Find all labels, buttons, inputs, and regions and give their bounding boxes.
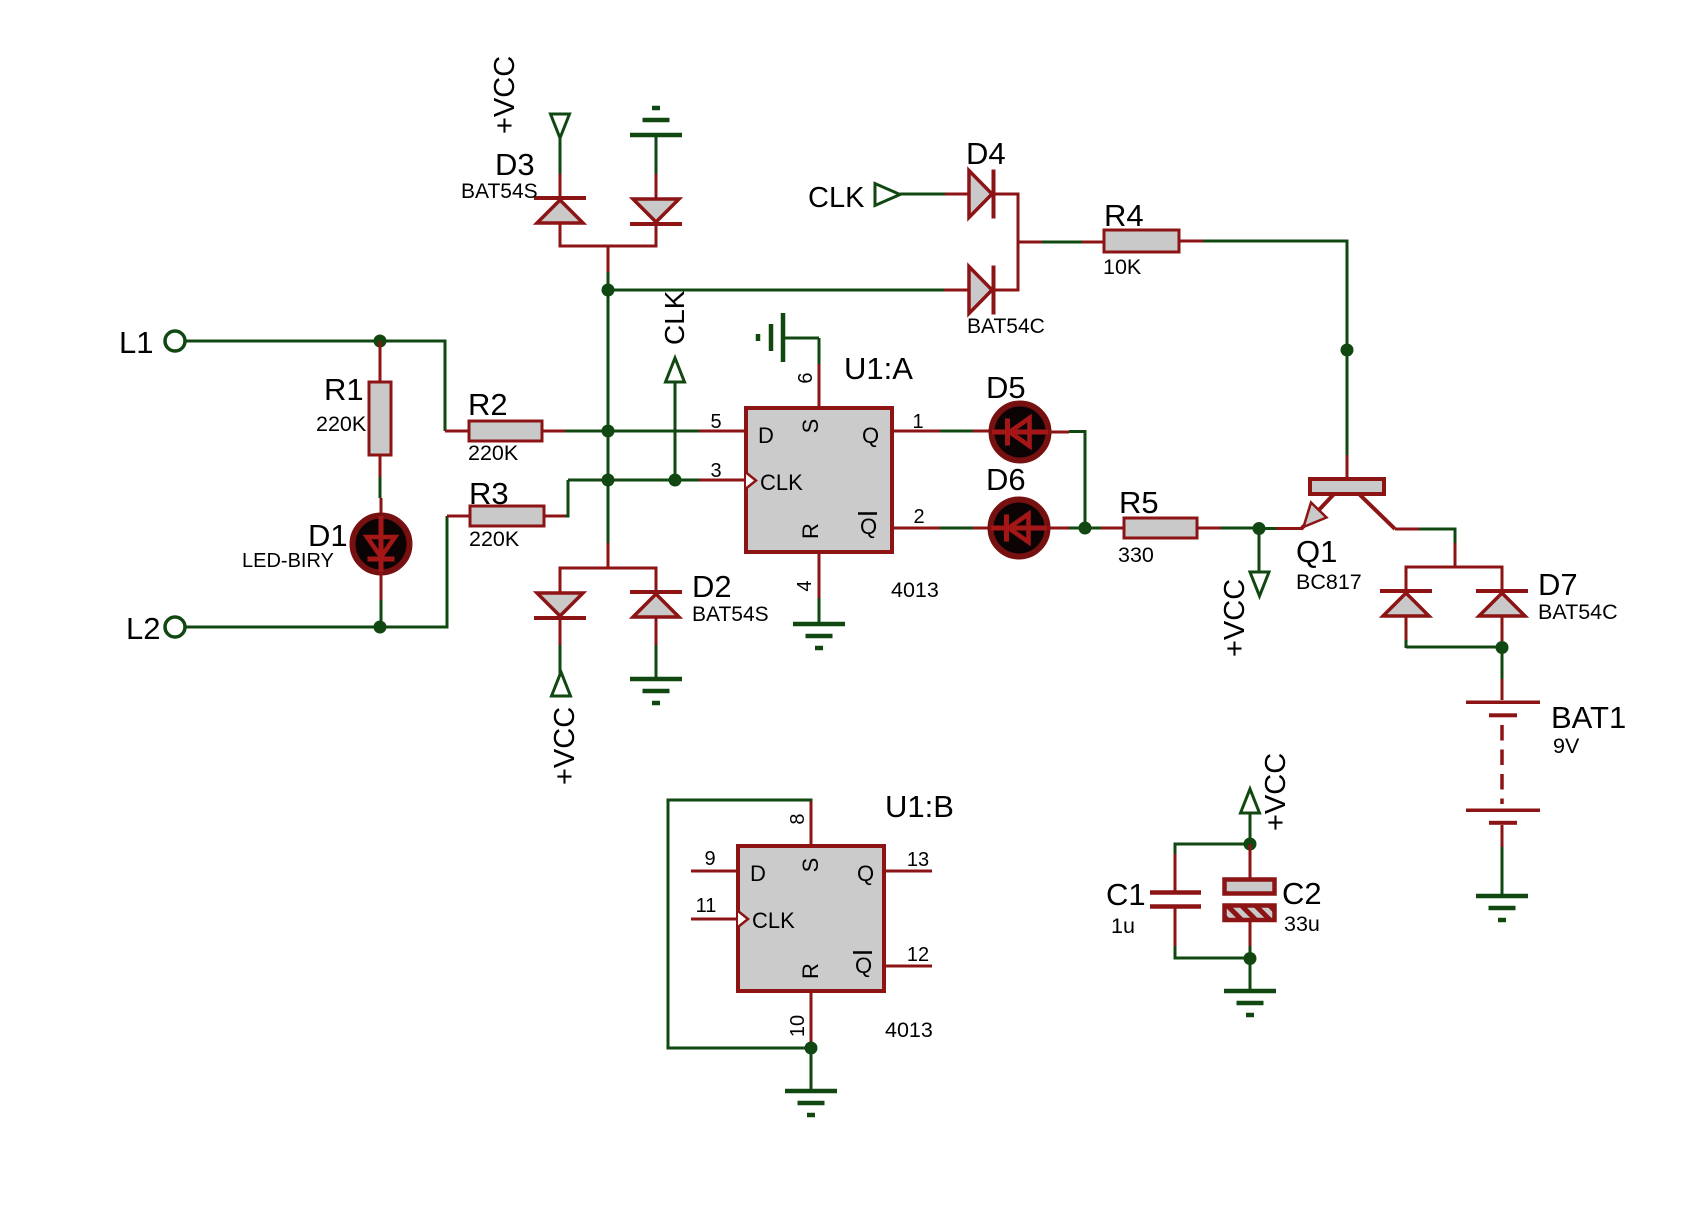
svg-text:D5: D5 [986, 370, 1026, 405]
LED D5 [992, 404, 1049, 461]
wire D7 right anode down [1501, 616, 1504, 641]
wire bus D3 to CLK crossing [607, 272, 610, 543]
svg-text:R2: R2 [468, 387, 508, 422]
value R2 220K [468, 441, 519, 465]
wire pin 10 to ground [810, 1048, 813, 1090]
diode D2 right half [630, 592, 682, 617]
wire D7 left anode down [1405, 616, 1408, 648]
Q1 collector [1359, 494, 1419, 529]
value C1 1u [1111, 914, 1135, 938]
svg-text:220K: 220K [316, 412, 367, 436]
svg-text:+VCC: +VCC [1260, 753, 1292, 831]
wire D1 top pin [380, 498, 383, 516]
svg-text:CLK: CLK [659, 290, 690, 345]
U1:A pin 3 stub [699, 479, 746, 482]
U1:B text R [798, 963, 823, 979]
U1:A pin 5 stub [699, 430, 746, 433]
ground below D2 [630, 679, 682, 703]
wire top rail to C1 [1175, 843, 1250, 855]
svg-text:9V: 9V [1553, 734, 1580, 758]
wire R2 to U1:A pin 5 (net D) [565, 430, 699, 433]
U1:B clock wedge [738, 911, 748, 927]
value D3 BAT54S [461, 180, 538, 203]
U1:A pin 3 number [710, 460, 721, 482]
label D6 [986, 462, 1026, 497]
terminal L2 [165, 617, 185, 637]
wire R3 left pin [447, 515, 471, 518]
svg-text:10K: 10K [1103, 255, 1142, 279]
svg-text:D3: D3 [495, 147, 535, 182]
svg-text:D6: D6 [986, 462, 1026, 497]
label Q1 [1296, 534, 1337, 569]
svg-text:R4: R4 [1104, 198, 1144, 233]
value BAT1 9V [1553, 734, 1580, 758]
label D5 [986, 370, 1026, 405]
power flag CLK (vertical) [666, 358, 685, 480]
wire D3 left cathode pin [559, 174, 562, 198]
wire L1 to junction [186, 340, 378, 343]
svg-text:330: 330 [1118, 543, 1154, 567]
wire R5 right pin [1197, 527, 1221, 530]
svg-text:+VCC: +VCC [1219, 579, 1251, 657]
wire D3 output bus [559, 245, 658, 248]
value R1 220K [316, 412, 367, 436]
U1:B pin 8 number [787, 813, 809, 824]
svg-text:CLK: CLK [760, 470, 803, 495]
wire emitter node right [1259, 527, 1302, 530]
wire R2 right pin [542, 430, 565, 433]
svg-text:C1: C1 [1106, 877, 1146, 912]
svg-text:D7: D7 [1538, 567, 1578, 602]
svg-text:D4: D4 [966, 136, 1006, 171]
LED D1 [353, 516, 410, 573]
svg-text:CLK: CLK [808, 182, 865, 214]
svg-text:R3: R3 [469, 476, 509, 511]
svg-text:4013: 4013 [891, 578, 939, 602]
svg-text:Q1: Q1 [1296, 534, 1337, 569]
wire D7 left cathode stub [1405, 567, 1408, 591]
node base net junction [1341, 344, 1354, 357]
U1:B pin 13 number [907, 849, 929, 871]
U1:B text Qbar [853, 953, 872, 979]
wire D2 right to ground [655, 617, 658, 678]
svg-text:3: 3 [710, 460, 721, 482]
svg-text:R5: R5 [1119, 485, 1159, 520]
wire L1 junction to R2 corner [380, 340, 445, 432]
wire R5 to emitter node [1221, 527, 1259, 530]
U1:B pin 9 stub [691, 870, 738, 873]
label R3 [469, 476, 509, 511]
U1:A pin 1 number [912, 411, 923, 433]
U1:B text S [798, 858, 823, 873]
U1:B text D [750, 861, 766, 886]
U1:A clock wedge [746, 473, 756, 489]
wire L2 to junction [186, 626, 378, 629]
svg-text:Q: Q [860, 514, 877, 539]
wire D2 left to +VCC [559, 618, 562, 674]
label R1 [324, 372, 364, 407]
U1:A pin 6 stub [818, 364, 821, 408]
wire C1 top pin [1174, 854, 1177, 891]
label D7 [1538, 567, 1578, 602]
diode D7 left half [1380, 591, 1432, 616]
ground below U1:B [785, 1091, 837, 1115]
U1:A pin 6 number [795, 372, 817, 383]
wire collector to D7 [1419, 528, 1455, 569]
label R2 [468, 387, 508, 422]
diode D3 left half [534, 198, 586, 223]
svg-text:L1: L1 [119, 325, 153, 360]
svg-text:R: R [798, 963, 823, 979]
svg-text:12: 12 [907, 944, 929, 966]
label C2 [1282, 876, 1322, 911]
svg-text:D1: D1 [308, 518, 348, 553]
value D7 BAT54C [1538, 600, 1618, 624]
wire D3 right anode pin [655, 174, 658, 199]
power +VCC above D3 [551, 114, 570, 138]
wire R2 left pin [445, 430, 470, 433]
diode D3 right half [630, 199, 682, 224]
label C1 [1106, 877, 1146, 912]
value Q1 BC817 [1296, 570, 1362, 594]
resistor R5 [1124, 518, 1197, 538]
wire D4 to R4 [1018, 241, 1105, 244]
label U1:B [885, 789, 954, 824]
svg-text:CLK: CLK [752, 908, 795, 933]
wire pin1 to D5 [940, 430, 991, 433]
svg-text:+VCC: +VCC [549, 707, 581, 785]
label U1:A [844, 351, 913, 386]
svg-text:BAT54C: BAT54C [1538, 600, 1618, 624]
U1:A pin 4 stub [818, 552, 821, 598]
svg-text:11: 11 [696, 895, 717, 917]
diode D4 bottom half [969, 266, 994, 315]
U1:B pin 10 number [787, 1015, 809, 1037]
svg-text:Q: Q [857, 861, 874, 886]
battery BAT1 dashed link [1500, 725, 1504, 804]
node D7 junction [1496, 641, 1509, 654]
node D5/D6 junction [1079, 522, 1092, 535]
svg-text:D: D [750, 861, 766, 886]
label D1 [308, 518, 348, 553]
transistor Q1 base bar [1310, 479, 1384, 494]
value U1:B 4013 [885, 1018, 933, 1042]
label +VCC below D2 [549, 707, 581, 785]
wire +VCC to C2 node [1249, 812, 1252, 844]
U1:A text D [758, 423, 774, 448]
node CLK net junction 1 [602, 474, 615, 487]
power +VCC at emitter [1250, 529, 1269, 597]
value C2 33u [1284, 912, 1320, 936]
label R4 [1104, 198, 1144, 233]
U1:B pin 12 number [907, 944, 929, 966]
U1:A pin 1 stub [892, 430, 940, 433]
svg-text:R1: R1 [324, 372, 364, 407]
svg-text:6: 6 [795, 372, 817, 383]
resistor R1 [369, 382, 391, 455]
resistor R2 [469, 421, 542, 441]
label D4 [966, 136, 1006, 171]
svg-text:2: 2 [913, 506, 924, 528]
wire R4 right pin [1179, 240, 1203, 243]
label BAT1 [1551, 700, 1626, 735]
wire ground to D3 right [655, 135, 658, 174]
U1:A text Q [862, 423, 879, 448]
node C2 top junction [1244, 838, 1257, 851]
svg-text:D2: D2 [692, 569, 732, 604]
svg-text:1: 1 [912, 411, 923, 433]
diode D2 left half [534, 593, 586, 618]
label +VCC at emitter [1219, 579, 1251, 657]
IC U1:B body [738, 846, 884, 991]
wire D1 to L2 [380, 600, 383, 627]
svg-text:8: 8 [787, 813, 809, 824]
label +VCC above C2 [1260, 753, 1292, 831]
node U1:B pin10 junction [805, 1042, 818, 1055]
ground sideways at pin 6 [758, 313, 783, 362]
value D1 LED-BIRY [242, 550, 334, 572]
wire C1 bottom pin [1174, 908, 1177, 946]
U1:B pin 12 stub [884, 965, 932, 968]
wire R4 to Q1 base [1203, 240, 1347, 456]
label +VCC top-left [489, 56, 521, 134]
svg-text:LED-BIRY: LED-BIRY [242, 550, 334, 572]
node C2 bottom junction [1244, 946, 1257, 965]
diode D4 top half [969, 170, 994, 219]
svg-text:220K: 220K [468, 441, 519, 465]
svg-text:4013: 4013 [885, 1018, 933, 1042]
wire Q1 base pin [1346, 455, 1349, 479]
Q1 emitter [1301, 494, 1334, 529]
wire R1 to D1 [379, 477, 382, 498]
svg-text:S: S [798, 419, 823, 434]
wire R3 to CLK net [565, 480, 699, 518]
svg-text:1u: 1u [1111, 914, 1135, 938]
svg-text:10: 10 [787, 1015, 809, 1037]
power +VCC below D2 [552, 672, 571, 696]
wire D7 to BAT1 [1501, 647, 1504, 700]
wire D3 right cathode to bus [655, 224, 658, 248]
U1:B text Q [857, 861, 874, 886]
svg-text:R: R [798, 523, 823, 539]
wire D5 right [1049, 430, 1085, 528]
U1:B pin 8 stub [810, 801, 813, 846]
svg-text:S: S [798, 858, 823, 873]
svg-text:BAT1: BAT1 [1551, 700, 1626, 735]
wire C1 to bottom rail [1175, 946, 1250, 960]
node D net junction [602, 425, 615, 438]
resistor R3 [470, 506, 544, 526]
U1:A pin 5 number [710, 411, 721, 433]
svg-text:Q: Q [855, 953, 872, 978]
wire R1 top pin [379, 341, 382, 383]
capacitor C1 [1150, 893, 1201, 907]
wire D7 right cathode stub [1501, 567, 1504, 591]
U1:A text R [798, 523, 823, 539]
battery BAT1 cell1 long plate [1466, 701, 1540, 705]
port CLK arrow [875, 184, 900, 206]
wire junction to R5 [1085, 527, 1125, 530]
svg-text:Q: Q [862, 423, 879, 448]
wire CLK to D4 top [900, 193, 969, 196]
wire D3 bus drop [607, 245, 610, 272]
wire R1 bottom pin [379, 455, 382, 477]
value U1:A 4013 [891, 578, 939, 602]
battery BAT1 cell2 short plate [1489, 821, 1517, 825]
wire ground to pin 6 [783, 338, 819, 364]
wire +VCC to D3 [559, 137, 562, 174]
wire to ground below C2 [1249, 958, 1252, 990]
label D3 [495, 147, 535, 182]
U1:A text Qbar [858, 514, 877, 540]
battery BAT1 cell2 long plate [1466, 809, 1540, 813]
value D4 BAT54C [967, 315, 1045, 338]
svg-text:33u: 33u [1284, 912, 1320, 936]
U1:B text CLK [752, 908, 795, 933]
U1:A pin 4 number [794, 580, 816, 591]
U1:B pin 11 stub [691, 918, 738, 921]
value R4 10K [1103, 255, 1142, 279]
U1:A pin 2 number [913, 506, 924, 528]
IC U1:A body [746, 408, 892, 552]
wire D2 left cathode stub [559, 568, 562, 593]
wire L2 junction to R3 corner [380, 516, 447, 629]
capacitor C2 top plate [1225, 880, 1275, 894]
wire U1:B feedback loop [668, 799, 813, 1050]
power +VCC above C2 [1241, 789, 1260, 813]
wire D6 right [1048, 527, 1085, 530]
value R3 220K [469, 527, 520, 551]
wire R3 right pin [544, 515, 565, 518]
wire D2 input bus [559, 567, 658, 570]
ground below C2 [1224, 991, 1276, 1015]
capacitor C2 bottom plate [1225, 906, 1275, 921]
wire pin 4 to ground [818, 598, 821, 623]
svg-text:220K: 220K [469, 527, 520, 551]
U1:B pin 9 number [704, 848, 715, 870]
svg-text:U1:A: U1:A [844, 351, 913, 386]
ground above D3 right half [630, 108, 682, 135]
node L2 junction [374, 621, 387, 634]
label CLK input [808, 182, 865, 214]
U1:B pin 13 stub [884, 870, 932, 873]
wire pin2 to D6 [940, 527, 991, 530]
U1:B pin 11 number [696, 895, 717, 917]
wire D1 bottom pin [380, 573, 383, 600]
svg-text:4: 4 [794, 580, 816, 591]
svg-text:BC817: BC817 [1296, 570, 1362, 594]
wire CLK2 to D4 bottom [608, 289, 969, 292]
value R5 330 [1118, 543, 1154, 567]
wire BAT1 to ground [1501, 825, 1504, 895]
terminal L1 [165, 331, 185, 351]
ground below U1:A [793, 624, 845, 648]
LED D6 [991, 500, 1048, 557]
svg-text:9: 9 [704, 848, 715, 870]
label D2 [692, 569, 732, 604]
label L1 [119, 325, 153, 360]
label R5 [1119, 485, 1159, 520]
U1:A text S [798, 419, 823, 434]
svg-text:BAT54C: BAT54C [967, 315, 1045, 338]
value D2 BAT54S [692, 603, 769, 626]
U1:A text CLK [760, 470, 803, 495]
svg-text:+VCC: +VCC [489, 56, 521, 134]
ground below BAT1 [1476, 896, 1528, 920]
U1:B pin 10 stub [810, 991, 813, 1048]
wire D4 cathode join [994, 193, 1018, 292]
node L1 junction [374, 335, 387, 348]
diode D7 right half [1476, 591, 1528, 616]
node bus top junction [602, 284, 615, 297]
svg-text:D: D [758, 423, 774, 448]
svg-text:BAT54S: BAT54S [692, 603, 769, 626]
wire C2 top pin [1249, 844, 1252, 880]
svg-text:5: 5 [710, 411, 721, 433]
svg-text:U1:B: U1:B [885, 789, 954, 824]
wire D2 bus drop [607, 543, 610, 568]
wire D7 bottom bus [1406, 646, 1502, 649]
U1:A pin 2 stub [892, 527, 940, 530]
wire D7 top bus [1405, 566, 1504, 569]
battery BAT1 cell1 short plate [1489, 713, 1517, 717]
svg-text:C2: C2 [1282, 876, 1322, 911]
wire D3 left anode to bus [559, 223, 562, 248]
resistor R4 [1104, 230, 1179, 252]
node emitter junction [1253, 522, 1266, 535]
label L2 [126, 611, 160, 646]
svg-text:L2: L2 [126, 611, 160, 646]
node CLK net junction 2 [669, 474, 682, 487]
wire D2 right anode stub [655, 568, 658, 593]
svg-text:13: 13 [907, 849, 929, 871]
wire C2 bottom pin [1249, 920, 1252, 946]
label CLK vertical [659, 290, 690, 345]
svg-text:BAT54S: BAT54S [461, 180, 538, 203]
